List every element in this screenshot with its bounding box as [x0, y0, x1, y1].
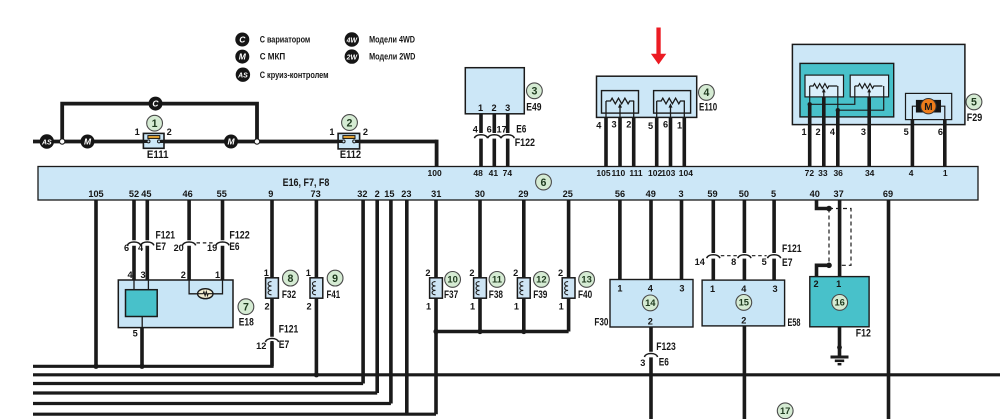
wire E112 to bus pin 100 [435, 142, 437, 167]
wire E110 pin1 to bus 104 [682, 117, 686, 166]
circle 2 [342, 115, 358, 131]
svg-text:M: M [924, 102, 932, 113]
wire F39 down to common [522, 298, 526, 331]
connector arc 4 (F121/E7) [141, 242, 154, 245]
svg-text:7: 7 [243, 302, 249, 314]
wire bus 105 down [94, 200, 98, 366]
svg-text:6: 6 [938, 127, 943, 137]
svg-text:15: 15 [739, 297, 749, 308]
wire F29 pin1 to bus 72 [808, 104, 812, 166]
svg-text:M: M [227, 137, 235, 147]
wire E49 pin1 to bus 48 [479, 114, 483, 167]
svg-text:E18: E18 [239, 316, 254, 328]
svg-text:3: 3 [505, 103, 510, 113]
svg-text:12: 12 [256, 341, 266, 351]
svg-text:56: 56 [615, 189, 625, 199]
svg-text:6: 6 [663, 119, 668, 129]
svg-text:F41: F41 [327, 289, 341, 301]
wire bus 59 to E58 [711, 200, 715, 280]
connector arc 6 (F121/E7) [127, 242, 140, 245]
svg-text:2: 2 [425, 268, 430, 278]
block E49 [465, 68, 524, 114]
circle 16 [832, 295, 848, 311]
svg-text:50: 50 [739, 189, 749, 199]
wire F32 down [270, 298, 274, 366]
fuse F32 [266, 278, 279, 298]
svg-text:17: 17 [780, 405, 790, 416]
F29 internal wiring left leads [810, 86, 855, 104]
connector arc 3 (F123/E6) [644, 354, 657, 357]
circle 17 [777, 403, 793, 419]
svg-text:6: 6 [487, 125, 492, 135]
wire F30 pin2 down [649, 327, 653, 419]
svg-text:2: 2 [626, 119, 631, 129]
svg-text:1: 1 [329, 127, 334, 137]
connector arc pin 6 [488, 135, 501, 138]
junction dot F29 pin1 [808, 102, 812, 106]
svg-text:1: 1 [559, 301, 564, 311]
E18 internal leads [134, 280, 148, 328]
svg-text:41: 41 [489, 168, 499, 178]
svg-text:F37: F37 [444, 289, 458, 301]
F29 sensor box left [805, 75, 844, 97]
svg-text:17: 17 [496, 125, 506, 135]
svg-text:E110: E110 [699, 101, 717, 113]
wire bus 2 down to line D [375, 200, 379, 393]
block F12 [810, 277, 869, 327]
junction dot F38/common [477, 329, 482, 334]
svg-text:1: 1 [264, 268, 269, 278]
svg-text:2: 2 [741, 316, 746, 326]
bus top pin labels [428, 168, 948, 178]
marker M left [81, 135, 95, 149]
wiper arrow F29 left [822, 88, 826, 97]
resistor F29 right [855, 84, 883, 89]
svg-text:46: 46 [182, 189, 192, 199]
wiper arrow E110 left [618, 103, 622, 117]
svg-text:AS: AS [237, 73, 248, 80]
svg-text:1: 1 [617, 283, 622, 293]
svg-text:1: 1 [943, 168, 948, 178]
svg-text:40: 40 [810, 189, 820, 199]
wire F40 down to common [567, 298, 571, 331]
svg-text:3: 3 [531, 86, 537, 98]
connector arc 5 [768, 255, 781, 258]
circle 11 [489, 272, 505, 288]
svg-text:F39: F39 [533, 289, 547, 301]
svg-text:49: 49 [646, 189, 656, 199]
wire bus 15 down to line E [389, 200, 393, 404]
E110 right resistor leads [657, 101, 685, 117]
svg-text:1: 1 [135, 127, 140, 137]
svg-text:2: 2 [491, 103, 496, 113]
svg-text:2: 2 [815, 127, 820, 137]
junction dot F37/common [433, 329, 438, 334]
E18 teal unit [126, 290, 158, 317]
svg-text:E7: E7 [782, 257, 793, 269]
svg-text:2W: 2W [346, 54, 358, 61]
svg-text:F32: F32 [282, 289, 296, 301]
wire to F12 pin2 [817, 265, 830, 276]
lamp [198, 289, 214, 299]
motor leads [912, 106, 944, 119]
svg-text:34: 34 [865, 168, 875, 178]
F29 sensor box right [850, 75, 888, 97]
E110 inner box right [654, 91, 691, 114]
junction dot 40 bottom [826, 263, 832, 269]
svg-text:9: 9 [268, 189, 273, 199]
svg-text:30: 30 [475, 189, 485, 199]
circle 15 [736, 295, 752, 311]
marker M right [224, 135, 238, 149]
F29 teal module [800, 63, 894, 117]
svg-text:1: 1 [710, 284, 715, 294]
block F30 [610, 280, 693, 328]
connector arc 8 [738, 255, 751, 258]
svg-text:13: 13 [581, 274, 591, 285]
connector arc 20 (F122/E6) [183, 242, 196, 245]
circle 10 [445, 272, 461, 288]
svg-text:E7: E7 [279, 339, 290, 351]
svg-text:4: 4 [741, 284, 747, 294]
wire bus 55 down [221, 200, 225, 280]
svg-text:10: 10 [447, 274, 457, 285]
svg-text:E6: E6 [659, 356, 669, 368]
wire bus 73 down [315, 200, 319, 278]
dashed variant box [829, 209, 851, 266]
junction dot lineA E18 [139, 364, 144, 369]
svg-text:С МКП: С МКП [260, 52, 286, 62]
svg-text:73: 73 [310, 189, 320, 199]
junction node left (open) [60, 139, 65, 144]
svg-text:3: 3 [140, 270, 145, 280]
legend marker 4W [345, 32, 359, 46]
svg-text:F40: F40 [578, 289, 592, 301]
wire F12 to ground [838, 327, 842, 357]
circle 13 [579, 272, 595, 288]
bus bottom pin labels [88, 189, 893, 199]
svg-text:45: 45 [141, 189, 151, 199]
wire F37 down to line F [434, 298, 438, 414]
resistor F29 left [810, 84, 838, 89]
svg-text:F38: F38 [489, 289, 503, 301]
svg-text:E49: E49 [526, 101, 541, 113]
fuse F38 [474, 278, 487, 298]
E110 left resistor leads [606, 101, 634, 117]
wire bus 29 down [522, 200, 526, 278]
svg-text:M: M [84, 137, 92, 147]
block E110 [597, 76, 697, 117]
svg-text:31: 31 [431, 189, 441, 199]
svg-text:1: 1 [470, 301, 475, 311]
svg-text:25: 25 [563, 189, 573, 199]
switch E111 [143, 133, 164, 148]
resistor E110 right [657, 98, 685, 104]
wire bus 69 down [887, 200, 891, 419]
svg-text:6: 6 [541, 177, 547, 189]
svg-text:E111: E111 [147, 149, 169, 161]
ground [831, 357, 849, 364]
svg-text:3: 3 [678, 189, 683, 199]
connector arc pin 17 [501, 135, 514, 138]
svg-text:1: 1 [478, 103, 483, 113]
wire bus 49 to F30 [649, 200, 653, 280]
wire bus 31 down [434, 200, 438, 278]
circle 8 [283, 270, 299, 286]
svg-text:2: 2 [814, 279, 819, 289]
svg-text:37: 37 [833, 189, 843, 199]
svg-text:E6: E6 [229, 241, 239, 253]
wire bus 5 to E58 [772, 200, 776, 280]
svg-text:5: 5 [771, 189, 776, 199]
svg-text:3: 3 [611, 119, 616, 129]
svg-text:48: 48 [473, 168, 483, 178]
svg-text:5: 5 [133, 328, 138, 338]
legend marker 2W [345, 49, 359, 63]
junction dot F29 pin4 [836, 108, 840, 112]
svg-text:1: 1 [152, 118, 158, 130]
circle 5 [966, 94, 982, 110]
svg-text:C: C [152, 99, 159, 109]
dashed link 20-19 [197, 242, 216, 244]
svg-text:Модели 4WD: Модели 4WD [369, 35, 415, 45]
svg-text:1: 1 [801, 127, 806, 137]
resistor E110 left [606, 98, 634, 104]
svg-text:4: 4 [138, 243, 144, 253]
wire bus 56 to F30 [618, 200, 622, 280]
wire F29 pin2 to bus 33 [822, 97, 826, 167]
svg-text:2: 2 [558, 268, 563, 278]
svg-text:74: 74 [503, 168, 513, 178]
block E18 [118, 280, 233, 328]
svg-text:11: 11 [492, 274, 502, 285]
svg-text:104: 104 [679, 168, 693, 178]
svg-text:5: 5 [762, 257, 767, 267]
wire bus 23 down to line F [405, 200, 409, 414]
wire F29 pin6 to bus 1 [943, 120, 947, 167]
svg-text:5: 5 [904, 127, 909, 137]
svg-text:15: 15 [384, 189, 394, 199]
circle 4 [699, 85, 715, 101]
fuse F39 [517, 278, 530, 298]
svg-text:E16, F7, F8: E16, F7, F8 [283, 177, 330, 189]
svg-text:72: 72 [805, 168, 815, 178]
connector arc 12 (F121/E7) [265, 339, 278, 342]
wire bus 50 to E58 [743, 200, 747, 280]
svg-text:69: 69 [883, 189, 893, 199]
svg-text:19: 19 [207, 243, 217, 253]
svg-text:M: M [239, 52, 247, 62]
wire F29 pin3 to bus 34 [867, 97, 871, 167]
svg-text:F121: F121 [156, 229, 176, 241]
svg-text:2: 2 [363, 127, 368, 137]
wire E110 pin6 to bus 103 [669, 117, 673, 166]
junction dot ground wire [837, 345, 842, 350]
wire bus 45 down [146, 200, 150, 280]
svg-text:3: 3 [772, 284, 777, 294]
wire bus 32 down to line C [361, 200, 365, 384]
svg-text:5: 5 [971, 97, 977, 109]
circle 3 [527, 83, 543, 99]
connector arc pin 4 [474, 135, 487, 138]
E110 inner box left [602, 91, 639, 114]
wire E110 pin5 to bus 102 [655, 117, 659, 166]
block F29 [792, 44, 965, 124]
wire line E [33, 402, 391, 405]
circle 1 [147, 115, 163, 131]
wire E18 pin5 down [140, 328, 144, 367]
wire E49 pin2 to bus 41 [492, 114, 496, 167]
junction dot F41/lineB [314, 372, 319, 377]
svg-text:4: 4 [473, 125, 479, 135]
svg-text:5: 5 [648, 121, 653, 131]
wire line F [33, 413, 436, 416]
svg-text:36: 36 [833, 168, 843, 178]
svg-text:4W: 4W [346, 37, 358, 44]
wiper arrow E110 right [669, 103, 673, 117]
wire F29 pin4 to bus 36 [836, 110, 840, 166]
fuse F40 [562, 278, 575, 298]
svg-text:100: 100 [428, 168, 442, 178]
svg-text:1: 1 [836, 279, 841, 289]
svg-text:8: 8 [287, 273, 293, 285]
svg-text:E112: E112 [340, 149, 361, 161]
svg-text:F29: F29 [967, 112, 982, 124]
junction dot lineA 105 [93, 364, 98, 369]
wire E49 pin3 to bus 74 [506, 114, 510, 167]
connector arc 14 [707, 255, 720, 258]
svg-text:33: 33 [818, 168, 828, 178]
wire E110 pin2 to bus 111 [632, 117, 636, 166]
svg-text:59: 59 [707, 189, 717, 199]
circle 6 [536, 174, 552, 190]
wire bus 3 to F30 [680, 200, 684, 280]
wire main horizontal line [33, 140, 437, 144]
svg-text:4: 4 [648, 283, 654, 293]
svg-text:8: 8 [731, 257, 736, 267]
wire line D [33, 391, 377, 394]
connector arc 19 (F122/E6) [216, 242, 229, 245]
legend marker M [235, 50, 249, 64]
svg-text:14: 14 [645, 297, 656, 308]
svg-text:55: 55 [217, 189, 227, 199]
svg-text:1: 1 [514, 301, 519, 311]
svg-text:E7: E7 [156, 241, 167, 253]
svg-text:2: 2 [264, 301, 269, 311]
junction dot F39/common [521, 329, 526, 334]
wiper arrow F29 right [867, 88, 871, 97]
svg-text:F30: F30 [594, 317, 608, 329]
switch E112 [338, 133, 360, 149]
junction dot 40 top [826, 206, 832, 212]
junction node right (open) [254, 139, 259, 144]
red arrow [651, 28, 666, 65]
svg-text:16: 16 [834, 297, 844, 308]
bus E16,F7,F8 [38, 167, 978, 201]
marker AS on main wire [40, 134, 54, 148]
svg-text:F12: F12 [856, 328, 871, 340]
svg-text:12: 12 [536, 274, 546, 285]
svg-text:2: 2 [167, 127, 172, 137]
svg-text:29: 29 [518, 189, 528, 199]
wire E110 pin3 to bus 110 [618, 117, 622, 166]
wire line B [33, 373, 1000, 376]
legend marker AS [236, 68, 250, 82]
dashed link 14-8-5 [721, 255, 767, 257]
wire bus 9 down [270, 200, 274, 278]
svg-text:C: C [239, 35, 246, 45]
svg-text:6: 6 [124, 243, 129, 253]
svg-text:E58: E58 [788, 317, 801, 329]
wire E110 pin4 to bus 105 [604, 117, 608, 166]
svg-text:14: 14 [695, 257, 706, 267]
svg-text:3: 3 [861, 127, 866, 137]
wire C bypass branch [62, 104, 257, 142]
svg-text:1: 1 [306, 268, 311, 278]
svg-text:2: 2 [347, 117, 353, 129]
wire line A [33, 341, 272, 366]
svg-text:9: 9 [332, 273, 338, 285]
circle 7 [238, 299, 254, 315]
svg-text:105: 105 [88, 189, 103, 199]
svg-text:4: 4 [596, 121, 602, 131]
wire F41 down to line B [315, 298, 319, 375]
svg-text:4: 4 [830, 127, 836, 137]
svg-text:4: 4 [909, 168, 914, 178]
motor M1 [916, 99, 941, 114]
svg-text:105: 105 [596, 168, 610, 178]
circle 14 [642, 295, 658, 311]
svg-text:2: 2 [648, 316, 653, 326]
svg-text:2: 2 [375, 189, 380, 199]
svg-text:4: 4 [127, 270, 133, 280]
F29 internal wiring right leads [838, 86, 884, 110]
svg-text:F123: F123 [656, 341, 676, 353]
svg-text:20: 20 [174, 243, 184, 253]
E18 lamp circuit [189, 280, 222, 294]
svg-text:3: 3 [679, 283, 684, 293]
motor box F29 [906, 93, 952, 119]
wire bus 40 stub [817, 200, 830, 209]
marker C on bypass [149, 97, 163, 111]
fuse common wire [436, 330, 569, 334]
svg-text:32: 32 [357, 189, 367, 199]
svg-text:2: 2 [513, 268, 518, 278]
svg-text:С вариатором: С вариатором [260, 35, 311, 45]
svg-text:AS: AS [41, 139, 52, 146]
svg-text:1: 1 [677, 121, 682, 131]
wire F29 pin5 to bus 4 [911, 120, 915, 167]
svg-text:103: 103 [661, 168, 675, 178]
svg-text:3: 3 [640, 358, 645, 368]
svg-text:111: 111 [629, 168, 643, 178]
svg-text:Модели 2WD: Модели 2WD [369, 52, 416, 62]
svg-text:С круиз-контролем: С круиз-контролем [260, 70, 329, 80]
wire bus 37 to F12 pin1 [838, 200, 842, 277]
wire E58 pin2 down [743, 326, 747, 419]
circle 9 [327, 270, 343, 286]
circle 12 [534, 272, 550, 288]
svg-text:F122: F122 [229, 229, 249, 241]
wire bus 25 down [567, 200, 571, 278]
wire bus 46 down [187, 200, 191, 280]
block E58 [702, 280, 785, 326]
svg-text:52: 52 [129, 189, 139, 199]
svg-text:23: 23 [401, 189, 411, 199]
svg-text:E6: E6 [516, 124, 526, 136]
svg-text:110: 110 [612, 168, 626, 178]
svg-text:F121: F121 [279, 324, 299, 336]
